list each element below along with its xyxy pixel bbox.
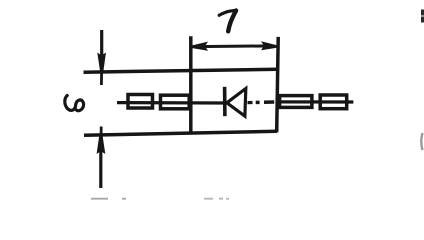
right lead crimp rectangle 4	[320, 95, 347, 109]
wire: body right edge + right extension of dim 7	[277, 37, 279, 132]
wire: body left edge + left extension of dim 7	[189, 36, 193, 134]
wire: bottom extension + body bottom edge	[84, 131, 277, 135]
wire: right lead centerline	[277, 100, 353, 103]
diode D: triangle	[227, 89, 246, 117]
label 7	[219, 10, 236, 31]
centerline dash-dot inside body	[248, 101, 253, 104]
stray mark: faint caption fragment bottom left	[91, 198, 126, 200]
stray mark: faint caption fragment bottom middle	[204, 198, 229, 200]
left lead crimp rectangle 1	[128, 95, 153, 109]
stray mark: cropped glyph right middle edge	[421, 133, 422, 150]
dimension line 7 (horizontal, arrows both ends)	[196, 44, 272, 48]
dimension line 5 bottom segment (arrow up)	[99, 143, 102, 188]
right lead crimp rectangle 3	[280, 96, 312, 108]
wire: left lead centerline	[117, 101, 225, 105]
stray mark: cropped glyphs right top edge	[421, 10, 424, 23]
wire: top extension + body top edge	[84, 69, 278, 72]
diode D: cathode bar	[223, 87, 227, 116]
left lead crimp rectangle 2	[161, 95, 190, 109]
label 5 (rotated)	[65, 96, 84, 111]
dimension line 5 top segment (arrow down)	[100, 30, 103, 64]
